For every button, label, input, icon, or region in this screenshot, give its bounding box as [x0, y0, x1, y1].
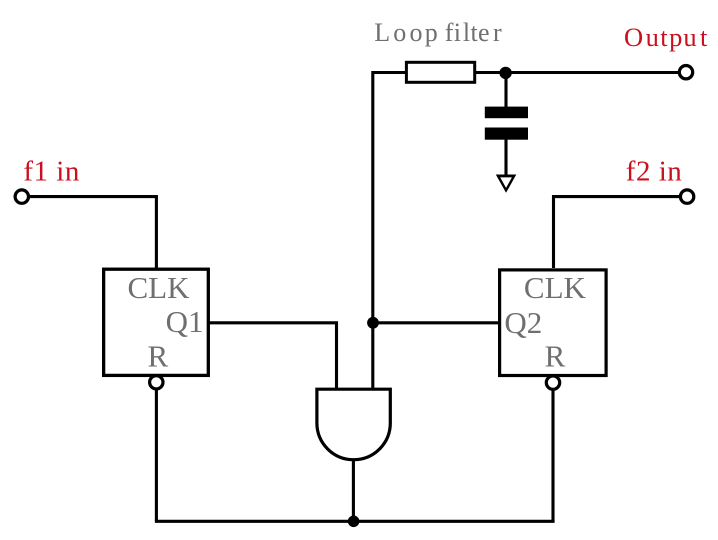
wire Q1 horizontal then down to AND gate left input	[207, 323, 337, 390]
capacitor C (upper plate)	[485, 107, 528, 119]
ground	[496, 175, 517, 193]
wire top horizontal from loop-filter corner to Output terminal	[373, 71, 679, 74]
wire f2 input to right flip-flop CLK	[554, 197, 688, 268]
terminal f1 in	[15, 190, 28, 203]
wire bottom bus horizontal	[155, 520, 555, 523]
flip-flop U1 box	[104, 269, 209, 375]
wire AND gate output down to bottom bus	[352, 458, 355, 521]
svg-text:f1 in: f1 in	[23, 155, 79, 187]
capacitor C (lower plate)	[485, 128, 528, 140]
wire Q2 horizontal to right flip-flop	[373, 321, 500, 324]
svg-text:R: R	[148, 339, 169, 374]
svg-text:CLK: CLK	[128, 270, 191, 305]
reset bubble R2 (right flip-flop)	[546, 376, 559, 389]
svg-text:Q2: Q2	[504, 305, 542, 340]
svg-text:R: R	[545, 338, 566, 373]
wire capacitor branch upper	[504, 73, 507, 108]
wire left R reset down to bottom bus	[155, 375, 158, 521]
node junction dot at loop filter output	[499, 67, 511, 79]
node junction dot at Q2 / loop-filter feed	[367, 317, 379, 329]
svg-text:f2 in: f2 in	[626, 155, 682, 187]
wire vertical loop-filter feed down to AND gate right input	[371, 71, 374, 390]
wire right R reset down to bottom bus	[551, 375, 554, 521]
node junction dot at AND output on bottom bus	[348, 516, 360, 528]
terminal Output	[679, 66, 692, 79]
wire capacitor branch lower to ground	[504, 138, 507, 176]
terminal f2 in	[680, 190, 693, 203]
flip-flop U2 box	[500, 270, 606, 376]
resistor (loop filter)	[406, 62, 474, 82]
wire f1 input to left flip-flop CLK	[22, 197, 156, 268]
reset bubble R1 (left flip-flop)	[150, 376, 163, 389]
svg-text:CLK: CLK	[524, 270, 587, 305]
AND gate (inputs top, output bottom)	[317, 389, 390, 460]
svg-text:Q1: Q1	[166, 304, 204, 339]
svg-text:Output: Output	[624, 22, 708, 52]
